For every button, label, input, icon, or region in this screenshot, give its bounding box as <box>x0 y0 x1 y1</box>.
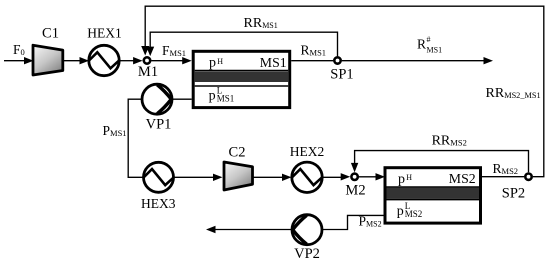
vacuum pump VP1 <box>142 84 172 114</box>
svg-text:MS2: MS2 <box>449 171 476 186</box>
svg-text:MS1: MS1 <box>260 55 287 70</box>
heat exchanger HEX3 <box>144 162 174 192</box>
wire VP2 to permeate out <box>206 226 292 233</box>
node M1 <box>144 57 150 63</box>
wire recycle RRMS2 from SP2 to M2 <box>351 151 529 173</box>
svg-text:HEX1: HEX1 <box>87 26 122 41</box>
wire M1 to MS1 <box>151 57 191 64</box>
wire SP1 to retentate out <box>342 57 493 64</box>
svg-text:VP2: VP2 <box>294 246 320 262</box>
svg-text:H: H <box>217 57 223 66</box>
svg-text:MS1: MS1 <box>427 46 443 55</box>
svg-text:SP1: SP1 <box>330 67 353 83</box>
wire HEX2 to M2 <box>322 173 350 180</box>
svg-text:RRMS1: RRMS1 <box>244 16 278 31</box>
svg-text:C2: C2 <box>229 145 246 161</box>
heat exchanger HEX2 <box>292 162 322 192</box>
svg-text:HEX3: HEX3 <box>141 196 176 211</box>
svg-text:p: p <box>209 89 216 104</box>
svg-text:RMS2: RMS2 <box>493 161 519 176</box>
svg-text:PMS1: PMS1 <box>103 123 127 138</box>
svg-text:p: p <box>397 204 404 219</box>
svg-text:HEX2: HEX2 <box>290 144 325 159</box>
wire HEX3 to C2 <box>174 174 223 181</box>
wire C1 to HEX1 <box>63 57 89 64</box>
wire M2 to MS2 <box>359 173 385 180</box>
svg-text:C1: C1 <box>42 26 59 42</box>
wire MS1 to SP1 <box>291 60 333 62</box>
wire MS1 permeate to VP1 <box>172 98 192 100</box>
wire recycle RRMS1 from SP1 to M1 <box>146 32 337 56</box>
svg-text:FMS1: FMS1 <box>162 43 186 58</box>
svg-text:M1: M1 <box>138 64 158 80</box>
wire feed F0 into C1 <box>4 57 34 64</box>
svg-text:MS1: MS1 <box>217 94 235 104</box>
vacuum pump VP2 <box>292 215 322 245</box>
wire MS2 to SP2 <box>482 176 524 178</box>
svg-text:VP1: VP1 <box>146 117 172 133</box>
node M2 <box>351 174 357 180</box>
wire HEX1 to M1 <box>119 57 142 64</box>
svg-text:RRMS2: RRMS2 <box>432 133 467 148</box>
svg-text:F0: F0 <box>13 42 25 57</box>
svg-text:p: p <box>398 172 405 187</box>
membrane module MS2 <box>385 168 481 223</box>
compressor C1 <box>33 45 63 75</box>
membrane module MS1 <box>193 51 290 107</box>
svg-text:SP2: SP2 <box>502 186 525 202</box>
wire C2 to HEX2 <box>253 174 292 181</box>
svg-text:#: # <box>427 35 431 44</box>
node SP1 <box>334 57 340 63</box>
compressor C2 <box>224 162 253 190</box>
svg-text:MS2: MS2 <box>405 209 423 219</box>
svg-text:p: p <box>209 55 216 70</box>
svg-text:H: H <box>406 173 412 182</box>
node SP2 <box>525 174 531 180</box>
svg-text:RRMS2_MS1: RRMS2_MS1 <box>486 86 541 101</box>
wire VP1 down to HEX3 <box>128 99 143 177</box>
wire recycle RRMS2_MS1 from SP2 to M1 <box>141 6 544 177</box>
heat exchanger HEX1 <box>89 45 119 75</box>
svg-text:M2: M2 <box>345 182 365 198</box>
wire MS2 permeate to VP2 <box>322 215 385 229</box>
label R#MS1 <box>417 35 442 55</box>
svg-text:RMS1: RMS1 <box>301 43 327 58</box>
svg-text:R: R <box>417 37 426 52</box>
